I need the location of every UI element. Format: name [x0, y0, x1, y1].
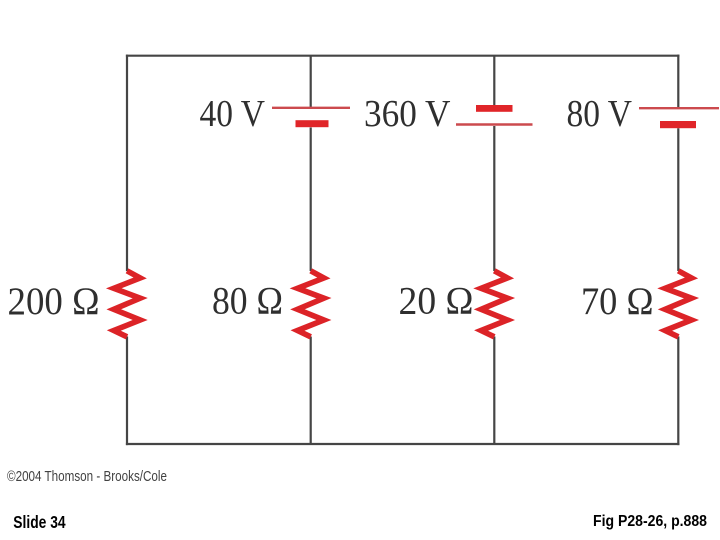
- wire right edge upper segment (to battery 80V): [677, 55, 679, 109]
- svg-text:80 V: 80 V: [567, 93, 633, 135]
- svg-text:70 Ω: 70 Ω: [581, 279, 654, 323]
- svg-text:Slide 34: Slide 34: [13, 512, 66, 532]
- wire top edge of loop: [126, 55, 680, 57]
- wire branch 3 middle segment (battery to resistor R3): [493, 126, 495, 271]
- wire branch 2 lower segment (from resistor R2): [310, 337, 312, 445]
- resistor R3 20 ohm zigzag: [481, 271, 507, 337]
- battery B1 40V long plate: [272, 107, 350, 109]
- battery B3 80V long plate: [639, 107, 719, 109]
- battery B2 360V short thick plate: [476, 105, 513, 112]
- wire left edge lower segment (from resistor R1): [126, 337, 128, 446]
- wire branch 3 lower segment (from resistor R3): [493, 337, 495, 445]
- svg-text:360 V: 360 V: [364, 93, 451, 135]
- wire branch 3 upper segment (to battery 360V): [493, 56, 495, 106]
- resistor R4 70 ohm zigzag: [665, 271, 691, 337]
- wire branch 2 middle segment (battery to resistor R2): [310, 128, 312, 272]
- resistor R1 200 ohm zigzag: [114, 271, 140, 337]
- battery B2 360V long plate: [456, 123, 533, 125]
- svg-text:©2004 Thomson - Brooks/Cole: ©2004 Thomson - Brooks/Cole: [7, 468, 167, 485]
- wire right edge middle segment (battery to resistor R4): [677, 128, 679, 271]
- wire branch 2 upper segment (to battery 40V): [310, 56, 312, 109]
- battery B3 80V short thick plate: [660, 121, 696, 128]
- svg-text:40 V: 40 V: [200, 93, 266, 135]
- wire bottom edge of loop: [126, 443, 680, 445]
- battery B1 40V short thick plate: [296, 120, 329, 127]
- svg-text:20 Ω: 20 Ω: [399, 279, 474, 323]
- svg-text:200 Ω: 200 Ω: [8, 279, 100, 323]
- resistor R2 80 ohm zigzag: [298, 271, 324, 337]
- svg-text:80 Ω: 80 Ω: [212, 279, 283, 323]
- svg-text:Fig P28-26, p.888: Fig P28-26, p.888: [593, 513, 707, 530]
- wire right edge lower segment (from resistor R4): [677, 337, 679, 446]
- wire left edge upper segment (to resistor R1): [126, 55, 128, 271]
